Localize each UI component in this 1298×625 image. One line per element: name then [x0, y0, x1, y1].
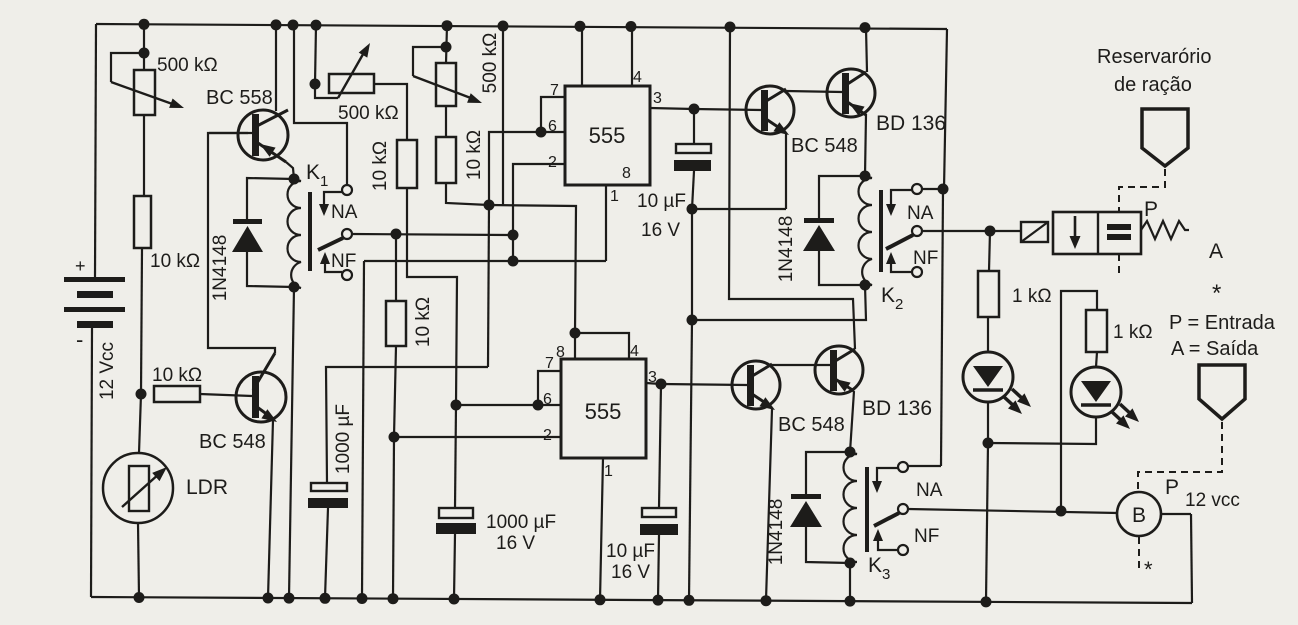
node: K2 ground branch	[687, 315, 698, 326]
transistor Q6 lower lead	[832, 377, 854, 391]
svg-text:10 kΩ: 10 kΩ	[150, 251, 200, 272]
node: x363 ground junction	[357, 593, 368, 604]
svg-text:-: -	[76, 327, 83, 352]
relay K3 NA contact	[898, 462, 908, 472]
node: C2 ground junction	[687, 204, 698, 215]
battery B1 12V plates	[64, 277, 125, 282]
wire: R5 to U2 pin2 line	[394, 346, 396, 437]
relay K1 core bar	[308, 192, 312, 271]
node: K2 coil top	[860, 171, 871, 182]
node: timing node junction	[484, 200, 495, 211]
wire: R7 feed bracket	[1061, 291, 1097, 511]
transistor Q1 collector	[255, 110, 288, 127]
svg-text:BC 548: BC 548	[778, 414, 845, 436]
wire: rail to K1 NA contact	[288, 20, 299, 31]
wire: U1 pin2 drop	[513, 164, 515, 261]
node: K3 coil bottom	[845, 558, 856, 569]
svg-text:10 µF: 10 µF	[606, 541, 655, 562]
resistor R7 1k body	[1086, 310, 1107, 352]
potentiometer P1 500k body	[134, 70, 155, 115]
node: U2 pin2 junction	[389, 432, 400, 443]
transistor Q3 emitter	[763, 117, 784, 131]
svg-text:BC 548: BC 548	[791, 135, 858, 157]
capacitor C4 10uF	[642, 508, 676, 517]
node: U1 pin6/7 junction	[536, 127, 547, 138]
node: U2 supply junction	[570, 328, 581, 339]
wire: Q2 emitter to ground rail	[268, 420, 273, 598]
transistor Q2 BC548 body	[236, 372, 286, 422]
svg-text:NA: NA	[331, 202, 358, 223]
wire: LDR to ground rail	[138, 523, 139, 597]
wire: R6 to LED1	[987, 317, 989, 353]
svg-text:1000 µF: 1000 µF	[333, 404, 354, 474]
wire: D3 anode link	[806, 527, 850, 563]
transistor Q5 collector	[749, 364, 772, 378]
wire: battery - to bottom rail	[91, 328, 92, 597]
potentiometer P2 wiper arrow	[338, 49, 366, 98]
wire: LED1/LED2 cathode link	[988, 417, 1096, 444]
wire: K3 NA to +12 feed	[908, 465, 941, 467]
wire: Q6 emitter +12 feed	[725, 22, 736, 33]
wire: K1 coil bottom to ground rail	[289, 287, 294, 598]
wire: timing node down to C1 line	[488, 205, 489, 367]
svg-text:P = Entrada: P = Entrada	[1169, 312, 1276, 334]
wire: +12V top supply rail	[96, 24, 947, 29]
wire: R7 to LED2	[1096, 352, 1097, 367]
wire: bottom rail right end up to motor	[1191, 514, 1192, 603]
transistor Q5 emitter	[749, 392, 770, 406]
node: U1 pin3 junction	[689, 104, 700, 115]
wire: C3 to ground rail	[454, 534, 455, 599]
potentiometer P3 500k body	[436, 63, 456, 106]
svg-text:10 µF: 10 µF	[637, 191, 686, 212]
svg-text:3: 3	[653, 90, 662, 107]
wire: K2 coil bottom return	[692, 285, 866, 320]
wire: LED cathodes to ground rail	[986, 443, 988, 601]
relay K3 core bar	[865, 467, 869, 552]
wire: Q6 to K3 coil	[850, 391, 854, 452]
svg-text:12 vcc: 12 vcc	[1185, 490, 1240, 511]
svg-text:1N4148: 1N4148	[776, 216, 797, 283]
transistor Q1 emitter	[255, 141, 286, 162]
svg-text:1: 1	[610, 188, 619, 205]
LED2 arrows	[1111, 411, 1124, 423]
svg-text:10 kΩ: 10 kΩ	[464, 130, 485, 180]
wire: pin3 node to C4	[659, 384, 661, 508]
node: x394 ground junction	[388, 593, 399, 604]
wire: K1 common to 555 U1 pin2 line	[352, 234, 513, 235]
relay K2 NF contact	[912, 267, 922, 277]
relay K2 common contact	[912, 226, 922, 236]
svg-text:BC 548: BC 548	[199, 431, 266, 453]
wire: top rail right end drop to K2 NA feed	[944, 29, 947, 189]
node: P3 wiper tie	[441, 42, 452, 53]
potentiometer P2 500k body (horizontal)	[329, 74, 374, 93]
wire: rail feed x503	[498, 21, 509, 32]
transistor Q3 collector	[763, 89, 786, 103]
resistor R2 10k body (base resistor)	[154, 386, 200, 402]
svg-text:Reservarório: Reservarório	[1097, 46, 1211, 68]
wire: K3 coil bottom to ground rail	[849, 563, 851, 601]
svg-text:NF: NF	[331, 251, 356, 272]
wire: P2 wiper link	[315, 84, 338, 98]
relay K1 NA contact	[342, 185, 352, 195]
node: rail junction P3	[442, 20, 453, 31]
LED LED1	[963, 352, 1013, 402]
node: C4 ground junction	[653, 595, 664, 606]
node: LED ground junction	[981, 596, 992, 607]
svg-text:10 kΩ: 10 kΩ	[370, 141, 391, 191]
svg-text:1 kΩ: 1 kΩ	[1113, 322, 1153, 343]
wire: Q2 collector to Q1 base	[208, 133, 275, 353]
resistor R6 1k body	[978, 271, 999, 317]
wire: K2 NA to +12 feed	[922, 188, 941, 190]
dashed link funnel2 to motor	[1138, 422, 1222, 491]
capacitor C3 1000uF	[439, 508, 473, 518]
outlet funnel symbol	[1199, 365, 1245, 419]
svg-text:8: 8	[622, 165, 631, 182]
wire: P3 to R4	[445, 106, 447, 137]
relay K1 NF contact	[342, 270, 352, 280]
wire: rail to potentiometer P1	[143, 24, 145, 70]
svg-text:2: 2	[895, 296, 903, 313]
svg-text:555: 555	[589, 123, 626, 148]
svg-text:12 Vcc: 12 Vcc	[97, 342, 118, 400]
valve seal bars	[1107, 224, 1131, 230]
svg-text:1 kΩ: 1 kΩ	[1012, 286, 1052, 307]
transistor Q2 emitter	[253, 404, 272, 418]
wire: U1 pin3 to Q3 base	[694, 109, 761, 110]
wire: K3 common to motor B	[908, 509, 1118, 513]
wire: timing node to U2 supply	[489, 205, 576, 333]
node: x689 ground junction	[684, 595, 695, 606]
wire: U1 pin6 to timing node	[489, 132, 565, 205]
wire: C3 chain	[455, 405, 456, 508]
wire: left rail from top rail to battery +	[95, 24, 96, 277]
transistor Q4 upper lead	[846, 72, 866, 85]
capacitor C1 1000uF	[311, 483, 347, 491]
wire: Q1 emitter to K1 coil	[286, 162, 294, 179]
wire: C1 to ground rail	[325, 508, 328, 598]
wire: C1 top link	[326, 367, 488, 483]
wire: R4 to timing node	[446, 183, 489, 205]
svg-text:1: 1	[604, 463, 613, 480]
node: K3 ground junction	[845, 596, 856, 607]
node: K2 common/LED branch	[985, 226, 996, 237]
wire: P3 wiper link	[413, 47, 446, 76]
wire: D2 anode link	[819, 251, 865, 285]
svg-text:6: 6	[548, 118, 557, 135]
wire: C4 to ground rail	[658, 535, 659, 600]
wire: Q4 to +12 rail	[860, 22, 871, 33]
node: LDR ground junction	[134, 592, 145, 603]
svg-text:500 kΩ: 500 kΩ	[157, 55, 218, 76]
node: K1 coil bottom	[289, 282, 300, 293]
svg-text:16 V: 16 V	[641, 220, 680, 241]
node: rail junction P2	[311, 20, 322, 31]
node: K2 NA junction	[938, 184, 949, 195]
relay K1 coil	[288, 180, 302, 288]
wire: R2 to Q2 base	[200, 394, 252, 396]
wire: U2 pin3 output	[646, 383, 661, 384]
svg-text:*: *	[1212, 280, 1221, 307]
svg-text:7: 7	[545, 355, 554, 372]
transistor Q2 collector	[253, 353, 275, 390]
svg-text:B: B	[1132, 504, 1146, 527]
node: U2 pin6/7 junction	[533, 400, 544, 411]
svg-text:BC 558: BC 558	[206, 87, 273, 109]
wire: U1 pin1 stub	[605, 185, 607, 261]
svg-text:+: +	[75, 256, 86, 276]
node: Q5 emitter ground junction	[761, 595, 772, 606]
resistor R5 10k body	[386, 301, 406, 346]
svg-text:K: K	[306, 161, 320, 184]
valve return spring	[1141, 221, 1189, 239]
wire: U2 pin2 line	[394, 436, 561, 438]
wire: K2 common to valve	[922, 230, 1021, 232]
svg-text:8: 8	[556, 344, 565, 361]
wire: P1 wiper link	[111, 53, 144, 82]
svg-text:NA: NA	[916, 480, 943, 501]
potentiometer P1 wiper arrow	[111, 82, 178, 106]
wire: U1 pin4 stub to rail	[626, 21, 637, 32]
valve flow arrow	[1074, 216, 1077, 241]
wire: Q5 emitter to ground rail	[766, 409, 772, 600]
wire: +12 feed down to K3 NA	[941, 190, 943, 466]
diode D3 1N4148	[791, 494, 821, 499]
svg-text:3: 3	[882, 566, 890, 583]
svg-text:1N4148: 1N4148	[210, 235, 231, 302]
solenoid valve actuator	[1021, 222, 1048, 242]
svg-text:500 kΩ: 500 kΩ	[338, 103, 399, 124]
transistor Q1 BC558 body	[238, 110, 288, 160]
wire: U2 pin8/pin4 bracket	[575, 333, 629, 359]
svg-text:1000 µF: 1000 µF	[486, 512, 556, 533]
wire: U1 pin7 bracket	[541, 97, 565, 132]
potentiometer P3 wiper arrow	[413, 76, 476, 100]
node: R1/LDR/R2 junction	[136, 389, 147, 400]
LED1 arrows	[1003, 396, 1016, 408]
wire: R5 hang from K1 common line	[395, 234, 397, 301]
svg-text:1: 1	[320, 173, 328, 190]
wire: rail to P2 left terminal	[315, 25, 316, 84]
diode D1 1N4148	[233, 219, 262, 224]
node: LED cathodes junction	[983, 438, 994, 449]
IC U2 555 body	[561, 359, 646, 458]
wire: P2 right to R3	[374, 84, 407, 140]
wire: Q1 base lead	[209, 132, 252, 134]
wire: ground bottom rail	[91, 597, 1192, 603]
svg-text:P: P	[1165, 476, 1179, 499]
transistor Q4 lower lead	[846, 101, 866, 115]
svg-text:16 V: 16 V	[611, 562, 650, 583]
svg-text:NF: NF	[913, 248, 938, 269]
wire: x692 to ground rail	[689, 320, 692, 600]
wire: LED1 to ground node	[987, 402, 989, 443]
wire: D2 cathode link	[819, 176, 865, 218]
transistor Q4 BD136 body	[827, 69, 875, 117]
wire: U2 pin3 to Q5 base	[661, 384, 747, 385]
svg-text:555: 555	[585, 399, 622, 424]
transistor Q3 BC548 body	[746, 86, 794, 134]
node: U2 pin6 junction	[451, 400, 462, 411]
svg-text:2: 2	[548, 154, 557, 171]
relay K1 common contact	[342, 229, 352, 239]
svg-text:K: K	[881, 284, 895, 307]
wire: ground drop x692	[691, 209, 693, 320]
transistor Q5 BC548 body	[732, 361, 780, 409]
solenoid valve body	[1053, 212, 1141, 254]
wire: D1 anode to K1 bottom	[247, 252, 294, 287]
wire: P1 to R1	[143, 115, 145, 196]
node: K1 coil top	[289, 174, 300, 185]
svg-text:2: 2	[543, 427, 552, 444]
wire: R1 to LDR node	[141, 248, 142, 394]
node: K1 common branch	[391, 229, 402, 240]
wire: U1 pin8 stub to rail	[575, 21, 586, 32]
svg-text:1N4148: 1N4148	[766, 499, 787, 566]
wire: Q4 to K2 coil	[865, 114, 866, 176]
wire: U2 pin7 bracket	[538, 371, 561, 405]
wire: D3 cathode link	[806, 452, 850, 494]
svg-text:BD 136: BD 136	[876, 112, 946, 135]
transistor Q6 BD136 body	[815, 346, 863, 394]
resistor R4 10k body	[436, 137, 456, 183]
svg-text:*: *	[1144, 557, 1153, 582]
wire: Q3 emitter to ground line	[785, 134, 787, 209]
resistor R3 10k body	[397, 140, 417, 188]
LDR body	[103, 453, 173, 523]
node: K3 coil top	[845, 447, 856, 458]
node: K2 coil bottom	[860, 280, 871, 291]
wire: pin2 node to ground rail	[393, 437, 394, 599]
node: pin2/pin1 line junctions	[508, 230, 519, 241]
wire: U1 pin2 stub	[515, 163, 565, 165]
wire: U1 pin3 output	[650, 108, 694, 109]
relay K3 common contact	[898, 504, 908, 514]
IC U1 555 body	[565, 86, 650, 185]
node: U2 pin3 junction	[656, 379, 667, 390]
diode D2 1N4148	[804, 218, 834, 223]
node: top rail junction for P1	[139, 19, 150, 30]
LED LED2	[1071, 367, 1121, 417]
wire: node to LDR	[139, 394, 141, 453]
wire: ground stub x363	[362, 261, 364, 598]
wire: rail to P3	[446, 25, 447, 63]
wire: rail to Q1 collector	[271, 19, 282, 30]
svg-text:4: 4	[633, 69, 642, 86]
wire: motor to bottom-right corner	[1161, 513, 1191, 515]
svg-text:P: P	[1144, 198, 1158, 221]
dashed link funnel to valve	[1119, 169, 1165, 277]
svg-text:A = Saída: A = Saída	[1171, 338, 1259, 360]
node: K1 ground junction	[284, 593, 295, 604]
wire: U2 pin6 line	[456, 404, 561, 406]
wire: R3 to U2 pin6 chain	[407, 188, 457, 405]
capacitor C2 10uF	[676, 144, 711, 153]
relay K2 core bar	[879, 190, 883, 272]
relay K2 NA contact	[912, 184, 922, 194]
node: C1 ground junction	[320, 593, 331, 604]
node: P1 wiper tie	[139, 48, 150, 59]
svg-text:BD 136: BD 136	[862, 397, 932, 420]
svg-text:4: 4	[630, 343, 639, 360]
wire: U1 pin1 ground line	[364, 260, 606, 262]
wire: Q3 collector to Q4 base	[786, 91, 842, 92]
relay K3 NF contact	[898, 545, 908, 555]
node: C3 ground junction	[449, 594, 460, 605]
relay K2 coil	[859, 177, 873, 285]
motor B body	[1117, 492, 1161, 536]
svg-text:LDR: LDR	[186, 476, 228, 499]
wire: Q5 collector to Q6 base	[772, 364, 830, 366]
wire: U2 pin1 to ground rail	[600, 458, 603, 600]
svg-text:NA: NA	[907, 203, 934, 224]
svg-text:A: A	[1209, 240, 1223, 263]
transistor Q6 upper lead	[832, 349, 855, 363]
wire: pin3 node to C2	[693, 109, 695, 144]
relay K3 coil	[844, 453, 858, 562]
wire: valve line to R6	[989, 231, 990, 271]
node: Q2 emitter ground junction	[263, 593, 274, 604]
resistor R1 10k body	[134, 196, 151, 248]
wire: C2 to ground line	[692, 171, 694, 209]
node: P2 left terminal	[310, 79, 321, 90]
svg-text:10 kΩ: 10 kΩ	[413, 297, 434, 347]
svg-text:16 V: 16 V	[496, 533, 535, 554]
wire: D1 cathode to K1 top	[247, 178, 294, 219]
node: motor/LED2 branch	[1056, 506, 1067, 517]
svg-text:NF: NF	[914, 526, 939, 547]
reservoir funnel symbol	[1142, 109, 1188, 166]
wire: ground link y209	[692, 208, 786, 210]
svg-text:de ração: de ração	[1114, 74, 1192, 96]
svg-text:500 kΩ: 500 kΩ	[480, 33, 501, 94]
node: U2 pin1 ground junction	[595, 594, 606, 605]
svg-text:K: K	[868, 554, 882, 577]
svg-text:10 kΩ: 10 kΩ	[152, 365, 202, 386]
dashed motor lower link	[1138, 537, 1140, 570]
